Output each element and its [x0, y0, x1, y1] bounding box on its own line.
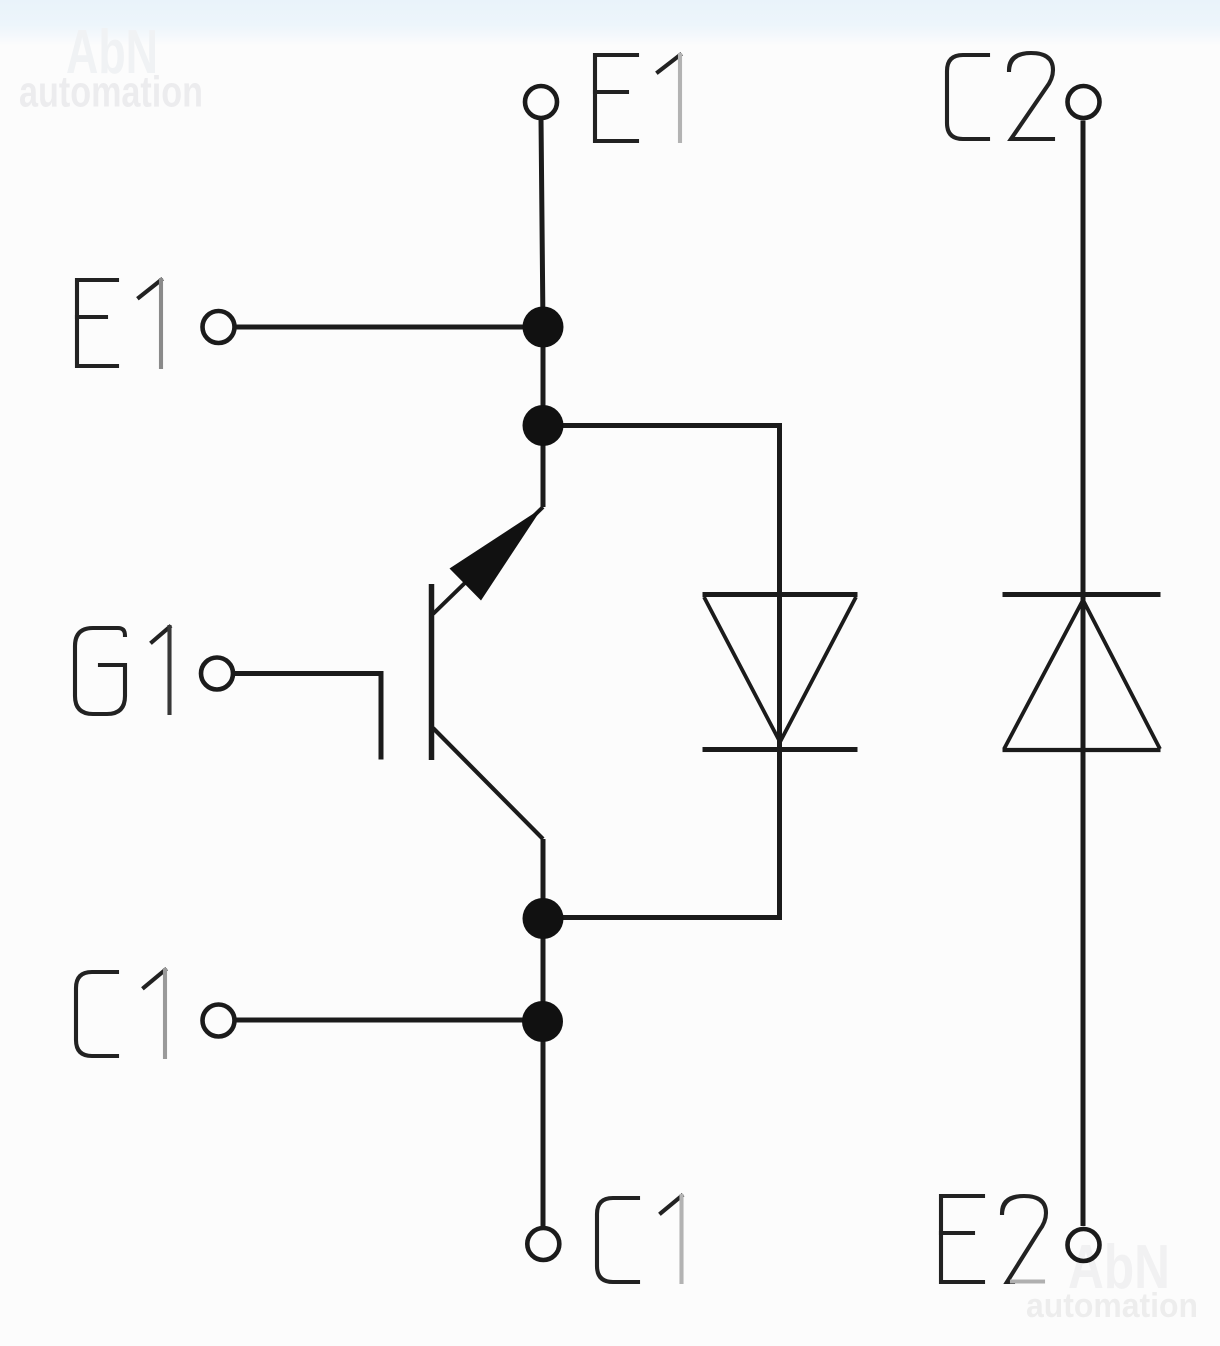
svg-text:automation: automation [19, 69, 203, 117]
svg-text:automation: automation [1026, 1287, 1198, 1325]
